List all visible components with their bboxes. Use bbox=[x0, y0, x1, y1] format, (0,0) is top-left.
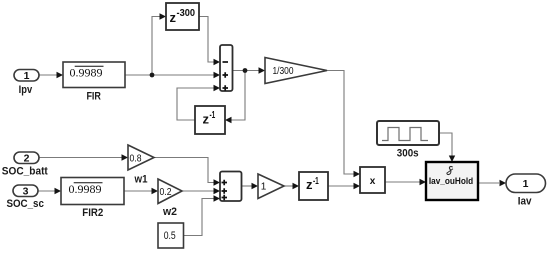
svg-text:Ipv: Ipv bbox=[19, 84, 33, 96]
arrow into sum2 in3 bbox=[214, 195, 221, 201]
wire sum1 output to gain bbox=[232, 70, 259, 72]
svg-text:0.8: 0.8 bbox=[130, 153, 142, 164]
svg-text:z: z bbox=[203, 112, 210, 127]
arrow into w2 bbox=[152, 188, 159, 194]
gain w1 (0.8) bbox=[128, 145, 154, 186]
arrow into product in2 bbox=[354, 183, 361, 189]
arrow into z-1 right (pointing left) bbox=[225, 117, 232, 123]
wire w2 to sum2 in2 bbox=[182, 190, 214, 192]
svg-text:2: 2 bbox=[24, 153, 30, 165]
svg-text:w2: w2 bbox=[162, 206, 177, 218]
arrow into sum1 plus bottom bbox=[214, 85, 221, 91]
inport 1 Ipv bbox=[14, 70, 39, 97]
FIR block bbox=[63, 62, 125, 103]
arrow into hold trigger (down) bbox=[449, 156, 455, 163]
delay z-300 bbox=[166, 3, 199, 30]
svg-text:w1: w1 bbox=[134, 174, 148, 186]
Iav_ouHold block bbox=[426, 162, 478, 200]
svg-text:FIR: FIR bbox=[86, 91, 101, 103]
arrow into FIR bbox=[57, 72, 64, 78]
arrow into product in1 bbox=[354, 171, 361, 177]
inport 3 SOC_sc bbox=[6, 185, 44, 210]
wire z-1b to product in2 bbox=[328, 185, 354, 187]
wire 0.5 to sum2 in3 bbox=[183, 199, 214, 236]
arrow into gain 1/300 bbox=[259, 67, 266, 73]
node junction on FIR output bbox=[150, 73, 155, 78]
wire z-300 output down to sum1 minus input bbox=[199, 17, 214, 63]
constant 0.5 bbox=[158, 223, 184, 248]
svg-text:0.5: 0.5 bbox=[164, 230, 176, 242]
wire hold to outport bbox=[478, 182, 499, 184]
wire port1 to FIR bbox=[39, 74, 57, 76]
wire port3 to FIR2 bbox=[38, 190, 55, 192]
gain1 (unity) bbox=[258, 174, 284, 199]
arrow into sum1 minus bbox=[214, 59, 221, 65]
sum2 block bbox=[220, 172, 242, 202]
svg-text:-1: -1 bbox=[210, 110, 216, 121]
wire w1 to sum2 in1 bbox=[154, 158, 214, 183]
wire FIR to sum1 middle input bbox=[125, 74, 214, 76]
wire FIR2 to w2 bbox=[124, 190, 152, 192]
svg-text:FIR2: FIR2 bbox=[82, 207, 103, 219]
arrow into outport bbox=[500, 180, 507, 186]
svg-text:-1: -1 bbox=[313, 176, 319, 187]
svg-text:Iav: Iav bbox=[518, 196, 533, 208]
svg-text:-300: -300 bbox=[177, 8, 196, 19]
sum1 block bbox=[220, 45, 233, 91]
wire feedback down to z-1 right side bbox=[231, 71, 245, 121]
arrow into sum2 in2 bbox=[214, 188, 221, 194]
arrow into FIR2 bbox=[55, 188, 62, 194]
svg-text:1: 1 bbox=[24, 70, 30, 82]
gain 1/300 bbox=[265, 58, 327, 84]
arrow into z-300 bbox=[160, 13, 167, 19]
svg-text:z: z bbox=[170, 10, 177, 25]
delay z-1b bbox=[299, 172, 328, 200]
outport 1 Iav bbox=[506, 174, 546, 208]
wire sum2 to gain1 bbox=[241, 185, 252, 187]
svg-text:x: x bbox=[370, 176, 376, 187]
wire gain1 to z-1b bbox=[284, 185, 293, 187]
arrow into gain1 bbox=[252, 183, 259, 189]
pulse generator 300s bbox=[377, 121, 439, 160]
wire gain 1/300 to product in1 bbox=[327, 71, 354, 175]
wire port2 to w1 bbox=[39, 157, 122, 159]
svg-text:1: 1 bbox=[523, 178, 529, 190]
wire pulse to hold trigger bbox=[439, 133, 452, 156]
arrow into w1 bbox=[122, 154, 129, 160]
inport 2 SOC_batt bbox=[2, 152, 48, 178]
svg-text:Iav_ouHold: Iav_ouHold bbox=[429, 176, 473, 186]
svg-text:0.2: 0.2 bbox=[160, 187, 172, 198]
product block x bbox=[360, 167, 385, 193]
wire z-1 output loop to sum1 bottom input bbox=[177, 88, 214, 120]
svg-text:0.9989: 0.9989 bbox=[70, 66, 103, 80]
arrow into sum1 plus middle bbox=[214, 72, 221, 78]
FIR2 block bbox=[61, 178, 124, 220]
wire product to hold bbox=[385, 181, 420, 183]
svg-text:1/300: 1/300 bbox=[273, 66, 294, 77]
svg-text:0.9989: 0.9989 bbox=[69, 182, 102, 196]
svg-text:3: 3 bbox=[23, 186, 29, 198]
delay z-1 (top loop) bbox=[195, 106, 225, 134]
svg-text:1: 1 bbox=[261, 182, 267, 193]
node junction on sum1 output bbox=[243, 68, 248, 73]
arrow into hold bbox=[420, 179, 427, 185]
svg-text:z: z bbox=[306, 177, 313, 192]
svg-text:300s: 300s bbox=[397, 148, 419, 160]
svg-text:SOC_batt: SOC_batt bbox=[2, 166, 48, 178]
svg-text:SOC_sc: SOC_sc bbox=[6, 198, 44, 210]
arrow into sum2 in1 bbox=[214, 179, 221, 185]
wire branch up to z-300 bbox=[152, 17, 160, 76]
gain w2 (0.2) bbox=[158, 179, 182, 218]
arrow into z-1b bbox=[293, 183, 300, 189]
